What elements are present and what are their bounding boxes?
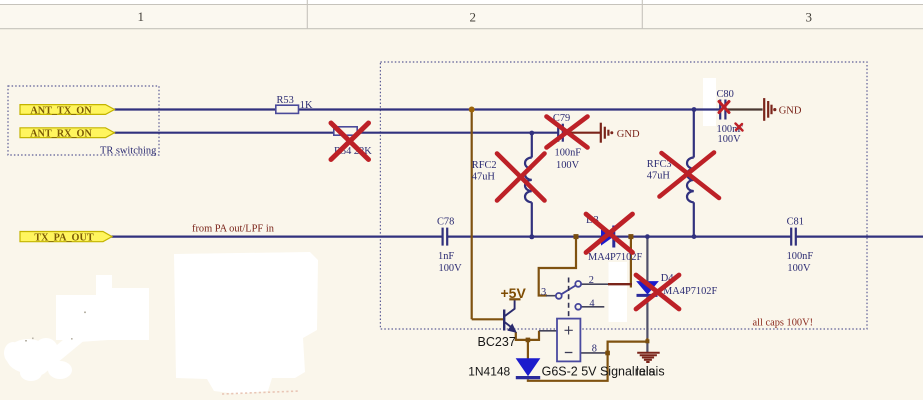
relay actuator dashed link — [568, 278, 570, 318]
junction dot (TX_ON / +5V branch) — [469, 107, 475, 113]
wire TX_PA_OUT net (C78 to C81) — [448, 236, 791, 238]
svg-text:4: 4 — [589, 298, 595, 309]
wire RFC3 bottom lead — [693, 202, 695, 236]
wire D3 to relay pin2 branch (brown) — [630, 237, 632, 288]
dashed box main circuit — [380, 62, 867, 329]
wire RFC3 top lead — [693, 110, 695, 158]
wire TX_PA_OUT net (left of C78) — [111, 236, 442, 238]
wire emitter to relay coil (brown) — [516, 331, 539, 340]
svg-text:100nF: 100nF — [555, 148, 582, 159]
svg-text:GND: GND — [617, 129, 640, 140]
red X over RFC3 — [660, 153, 720, 199]
small red X over C80 — [719, 102, 729, 113]
junction square (pin8 / bottom rail) — [605, 351, 610, 356]
wire relay pin2 maroon segment — [608, 283, 632, 285]
junction square (pin8 riser / ground line) — [645, 339, 649, 343]
wire relay pin3 branch (brown) — [539, 237, 576, 296]
svg-text:ANT_TX_ON: ANT_TX_ON — [30, 105, 92, 116]
white-out blob arrow (bottom left) — [4, 275, 149, 381]
red X over D3 — [586, 214, 633, 253]
wire relay pin2 lead — [581, 283, 608, 285]
diode D3 MA4P7102F — [586, 215, 642, 263]
junction dot (RFC2 / main line) — [529, 234, 534, 239]
junction square (1N4148 / emitter wire) — [526, 338, 531, 343]
header zone numbers — [138, 9, 813, 24]
junction dot (RFC3 / C80 line) — [692, 107, 697, 112]
svg-text:from PA out/LPF in: from PA out/LPF in — [192, 224, 275, 235]
diode 1N4148 — [468, 359, 540, 379]
wire C79 to GND (maroon) — [564, 132, 601, 134]
resistor R53 — [276, 95, 313, 113]
power ground GND (C80) — [764, 98, 771, 121]
junction square (relay pin3 / main line) — [574, 234, 579, 239]
red X over C79 — [547, 117, 588, 148]
svg-text:TX_PA_OUT: TX_PA_OUT — [34, 233, 93, 244]
svg-text:100V: 100V — [787, 263, 811, 274]
svg-text:100V: 100V — [439, 263, 463, 274]
svg-text:GND: GND — [779, 105, 802, 116]
svg-text:2: 2 — [589, 275, 594, 286]
svg-text:100V: 100V — [718, 134, 742, 145]
wire 1N4148 bottom rail (brown) — [528, 353, 608, 381]
wire relay pin8 riser (brown) — [608, 338, 648, 353]
net label TX_PA_OUT — [20, 232, 112, 244]
net label ANT_RX_ON — [20, 128, 115, 140]
svg-text:1nF: 1nF — [438, 251, 454, 262]
svg-text:BC237: BC237 — [478, 335, 516, 349]
wire relay pin4 lead — [581, 306, 604, 308]
junction dot (D4 branch / main line) — [645, 234, 650, 239]
wire ANT_RX_ON net — [115, 132, 558, 134]
red X over R54 — [331, 123, 369, 160]
resistor R54 — [334, 127, 373, 157]
svg-text:RFC2: RFC2 — [472, 160, 497, 171]
svg-text:TR switching: TR switching — [100, 146, 156, 157]
inductor RFC2 — [472, 158, 532, 203]
dashed box TR switching — [8, 86, 159, 155]
white patch near C80 — [703, 78, 716, 126]
capacitor C81 — [787, 217, 814, 275]
capacitor C78 — [437, 217, 462, 275]
capacitor C79 — [553, 113, 581, 171]
faint specks near blob — [25, 312, 86, 342]
svg-text:lais: lais — [636, 365, 655, 379]
wire D4 branch upper — [646, 237, 648, 281]
svg-text:8: 8 — [592, 344, 597, 355]
relay switch contacts — [556, 281, 581, 310]
svg-text:100V: 100V — [556, 160, 580, 171]
junction dot (RFC3 / main line) — [692, 234, 697, 239]
red X over RFC2 — [497, 154, 545, 201]
svg-text:+5V: +5V — [501, 285, 527, 301]
svg-text:100nF: 100nF — [787, 251, 814, 262]
inductor RFC3 — [647, 158, 694, 203]
svg-text:C81: C81 — [787, 217, 804, 228]
svg-text:47uH: 47uH — [647, 171, 671, 182]
relay pin numbers — [541, 275, 597, 355]
junction dot (RX_ON / RFC2) — [529, 131, 534, 136]
relay coil K (G6S-2) — [557, 319, 580, 362]
earth ground (relay circuit) — [637, 353, 660, 362]
wire RFC2 bottom lead — [531, 202, 533, 236]
wire base of BC237 (brown) — [472, 318, 503, 320]
net label ANT_TX_ON — [20, 105, 115, 117]
sheet header border — [0, 0, 923, 29]
wire ANT_TX_ON net — [115, 108, 720, 110]
wire C80 to GND — [726, 108, 762, 110]
wire output (right of C81) — [796, 236, 923, 238]
junction square (D3 branch / main line) — [628, 234, 633, 239]
white-out blob rectangle (bottom middle) — [174, 252, 318, 394]
svg-text:R53: R53 — [277, 95, 294, 106]
svg-text:1: 1 — [138, 9, 145, 24]
wire relay pin8 lead — [581, 352, 608, 354]
svg-text:3: 3 — [806, 9, 813, 24]
red X over D4 — [636, 275, 679, 309]
svg-text:C80: C80 — [717, 89, 734, 100]
wire RFC2 top lead — [531, 133, 533, 158]
pink speckle remnants — [222, 391, 300, 394]
transistor Q BC237 — [504, 299, 514, 330]
wire D4 branch lower to ground — [646, 297, 648, 352]
svg-text:1N4148: 1N4148 — [468, 365, 510, 379]
svg-text:C78: C78 — [437, 217, 454, 228]
svg-text:2: 2 — [470, 9, 477, 24]
power +5V — [501, 285, 527, 301]
wire relay coil plus lead — [539, 330, 557, 332]
small red scribble near C80 value — [736, 124, 743, 131]
wire +5V branch vertical (brown) — [471, 110, 473, 320]
capacitor C80 — [717, 89, 744, 145]
wire relay pin3 lead — [546, 295, 556, 297]
diode D4 MA4P7102F — [637, 273, 718, 297]
white band between relay and D4 — [609, 262, 628, 322]
power ground GND (C79) — [601, 123, 609, 143]
svg-text:all caps 100V!: all caps 100V! — [753, 318, 814, 329]
svg-text:47uH: 47uH — [472, 172, 496, 183]
svg-text:1K: 1K — [300, 100, 313, 111]
wire 1N4148 top lead (brown) — [527, 340, 529, 359]
svg-text:MA4P7102F: MA4P7102F — [663, 286, 717, 297]
svg-text:3: 3 — [541, 287, 546, 298]
svg-text:ANT_RX_ON: ANT_RX_ON — [30, 129, 92, 140]
